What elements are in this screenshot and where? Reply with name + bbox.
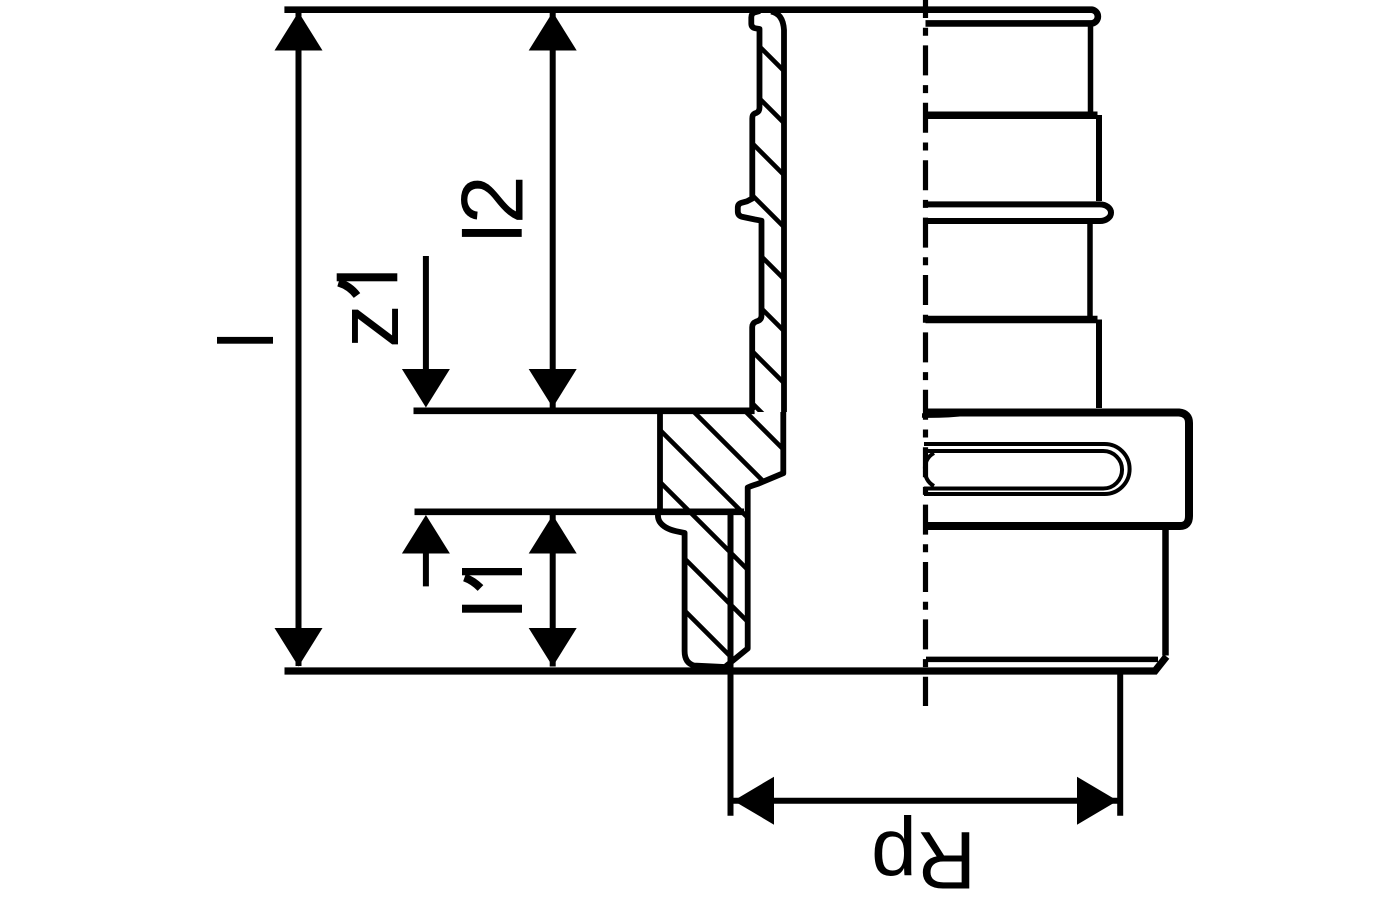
svg-text:2: 2 bbox=[443, 175, 542, 224]
dimension z1 arrow up bbox=[402, 515, 450, 554]
thread body right edge bbox=[1162, 530, 1169, 656]
dimension l1 arrow up bbox=[529, 515, 577, 554]
svg-text:Rp: Rp bbox=[871, 814, 976, 900]
fitting body: sectioned barb wall (hatched) bbox=[738, 11, 784, 412]
dimension z1 arrow down bbox=[402, 369, 450, 408]
svg-text:z: z bbox=[320, 304, 417, 348]
barb wall outer edge stroke bbox=[738, 11, 762, 410]
hex chamfer capsule inner bbox=[924, 451, 1122, 489]
right exterior: band B edge bbox=[1096, 115, 1102, 201]
label l2 bbox=[462, 229, 522, 237]
dimension l2 arrow down bbox=[529, 369, 577, 408]
hex chamfer capsule outer bbox=[924, 444, 1130, 494]
right exterior: band D edge bbox=[1096, 320, 1102, 409]
bottom outline line + chamfer tick bbox=[285, 657, 1167, 672]
dimension Rp line bbox=[734, 798, 1118, 804]
Rp extension line right bbox=[1117, 672, 1123, 816]
label l bbox=[217, 337, 273, 344]
right exterior: ridge line 1 bbox=[926, 111, 1098, 119]
thread chamfer ring line bbox=[926, 657, 1158, 663]
dimension l2 line bbox=[550, 13, 556, 408]
dimension z1 lower stem bbox=[423, 554, 429, 587]
top outline line + mouth bead cap bbox=[284, 10, 1097, 24]
right exterior: ridge line 2 bbox=[926, 316, 1098, 324]
centerline (dash-dot) bbox=[923, 0, 928, 706]
dimension l1 line bbox=[550, 515, 556, 667]
extension line y=511.8 (l1 top / flange bottom) bbox=[415, 508, 745, 515]
right exterior: band A edge bbox=[1088, 27, 1094, 112]
dimension Rp arrow right bbox=[1077, 777, 1118, 825]
hex top edge left thickening bbox=[922, 414, 968, 416]
dimension l1 arrow down bbox=[529, 628, 577, 667]
dimension l2 arrow up bbox=[529, 12, 577, 51]
dimension z1 upper stem bbox=[423, 256, 429, 371]
right exterior: big bead bbox=[926, 204, 1112, 221]
dimension l line bbox=[296, 13, 302, 666]
label l1 bbox=[462, 605, 522, 613]
barb wall inner edge stroke bbox=[771, 12, 784, 413]
hex chamfer capsule left arc fragment bbox=[925, 453, 934, 486]
fitting body: sectioned flange + thread wall (hatched) bbox=[658, 409, 783, 667]
dimension l arrow up bbox=[275, 12, 323, 51]
hex flange outline bbox=[926, 413, 1190, 527]
Rp extension line left bbox=[728, 512, 734, 816]
flange top edge / extension line y=411 bbox=[414, 407, 755, 414]
dimension Rp arrow left bbox=[734, 777, 775, 825]
right exterior: band C edge bbox=[1087, 224, 1093, 318]
dimension l arrow down bbox=[275, 628, 323, 667]
